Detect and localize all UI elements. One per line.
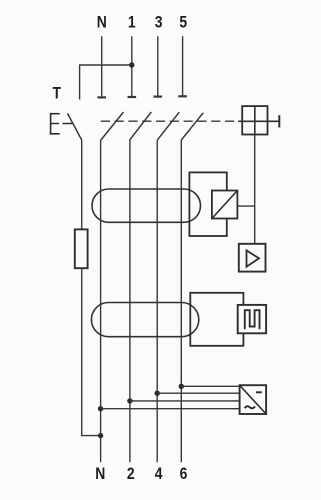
resistor (test circuit) — [75, 229, 88, 268]
svg-text:5: 5 — [179, 13, 187, 32]
junction node test-to-N — [98, 433, 103, 438]
switch blade pole 5-6 — [181, 113, 203, 140]
junction node tap 6 — [179, 384, 184, 389]
current transformer toroid 1 — [92, 189, 201, 222]
svg-text:4: 4 — [155, 465, 163, 484]
terminal label 6 — [180, 465, 188, 484]
relay housing box (upper) — [189, 172, 226, 236]
wire conductor 2 vertical — [129, 140, 131, 463]
wire conductor N vertical — [100, 140, 102, 462]
permanent magnet relay box (M glyph) — [238, 305, 266, 333]
mechanism square with cross — [238, 106, 279, 134]
svg-text:6: 6 — [180, 465, 188, 484]
junction node tap 4 — [155, 391, 160, 396]
wire conductor 6 vertical — [180, 140, 182, 463]
wire top stub 1 — [131, 36, 133, 96]
svg-text:N: N — [97, 13, 107, 32]
wire trip bus vertical — [254, 135, 256, 244]
switch blade pole 3-4 — [157, 112, 179, 140]
terminal contact tick 1 — [128, 96, 137, 98]
mechanism handle tick — [278, 115, 280, 127]
relay housing box (lower) — [190, 293, 243, 346]
wire tap 6 to rectifier — [181, 385, 239, 387]
junction node on line 1 — [129, 62, 134, 67]
svg-text:1: 1 — [128, 13, 136, 32]
terminal contact tick 5 — [178, 95, 187, 97]
wire tap 2 to rectifier — [130, 400, 240, 402]
wire relay to trip bus — [237, 205, 254, 207]
terminal label 2 — [127, 465, 135, 484]
test button actuator dashed link — [51, 123, 73, 125]
switch blade pole N — [101, 112, 124, 140]
junction node tap 2 — [127, 398, 132, 403]
wire conductor 4 vertical — [156, 140, 158, 462]
current transformer toroid 2 — [91, 303, 198, 337]
terminal label N (bottom) — [95, 465, 105, 484]
wire test branch vertical — [81, 140, 83, 229]
wire top stub N — [101, 36, 103, 96]
wire tap 4 to rectifier — [157, 392, 239, 394]
svg-text:3: 3 — [155, 13, 163, 32]
wire tap N to rectifier — [101, 408, 240, 410]
mechanism linkage dashed line — [101, 120, 237, 122]
junction node tap N — [98, 406, 103, 411]
svg-text:N: N — [95, 465, 105, 484]
terminal contact tick N — [97, 96, 106, 98]
test button E symbol — [50, 113, 60, 135]
wire test branch lower — [82, 268, 101, 435]
wire top stub 5 — [182, 36, 184, 95]
svg-text:2: 2 — [127, 465, 135, 484]
test switch blade — [68, 113, 82, 140]
terminal label 3 — [155, 13, 163, 32]
terminal label 5 — [179, 13, 187, 32]
trip relay U1 (square with diagonal) — [212, 191, 238, 219]
wire top stub 3 — [157, 36, 159, 96]
switch blade pole 1-2 — [130, 112, 151, 140]
svg-text:T: T — [53, 84, 62, 103]
label T (test button) — [53, 84, 62, 103]
wire test rail horizontal — [80, 65, 132, 100]
power supply rectifier box (~ / -) — [240, 385, 267, 414]
terminal contact tick 3 — [154, 95, 163, 97]
terminal label 1 — [128, 13, 136, 32]
amplifier box (triangle) — [239, 244, 266, 272]
terminal label N (top) — [97, 13, 107, 32]
terminal label 4 — [155, 465, 163, 484]
